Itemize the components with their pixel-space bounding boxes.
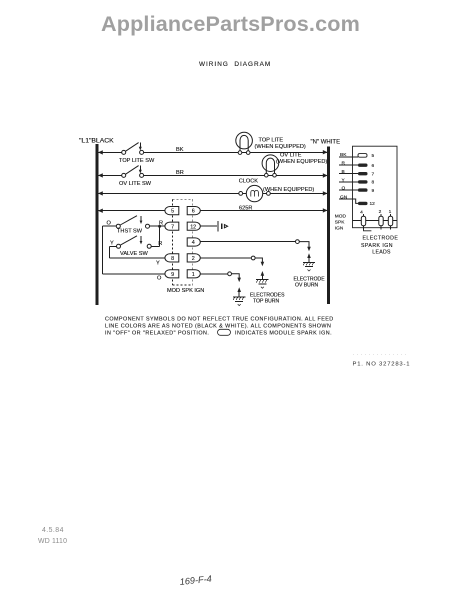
svg-text:IN "OFF" OR "RELAXED" POSITION: IN "OFF" OR "RELAXED" POSITION. (105, 331, 209, 337)
svg-text:9: 9 (372, 188, 375, 194)
svg-text:INDICATES MODULE SPARK IGN.: INDICATES MODULE SPARK IGN. (235, 331, 332, 337)
svg-text:O: O (107, 220, 112, 226)
svg-text:CLOCK: CLOCK (239, 179, 259, 185)
svg-text:8: 8 (372, 180, 375, 186)
svg-text:1: 1 (389, 209, 392, 215)
svg-text:"L1"BLACK: "L1"BLACK (79, 137, 114, 144)
svg-text:1: 1 (192, 272, 195, 278)
svg-text:OV LITE SW: OV LITE SW (119, 181, 152, 187)
svg-text:2: 2 (192, 256, 195, 262)
svg-text:4: 4 (192, 240, 195, 246)
svg-text:(WHEN EQUIPPED): (WHEN EQUIPPED) (276, 159, 327, 165)
svg-text:169-F-4: 169-F-4 (179, 574, 212, 587)
svg-text:Y: Y (156, 260, 160, 266)
svg-text:5: 5 (372, 153, 375, 159)
svg-text:MOD SPK IGN: MOD SPK IGN (167, 288, 204, 294)
svg-text:O: O (157, 275, 162, 281)
svg-text:12: 12 (190, 224, 196, 230)
svg-text:4.5.84: 4.5.84 (42, 527, 64, 534)
svg-text:ELECTRODES: ELECTRODES (250, 292, 285, 298)
svg-text:TOP BURN: TOP BURN (253, 299, 279, 305)
svg-text:8: 8 (171, 256, 174, 262)
svg-text:R: R (159, 221, 163, 227)
svg-text:SPK: SPK (335, 220, 345, 226)
svg-text:"N" WHITE: "N" WHITE (311, 140, 341, 146)
svg-text:WD 1110: WD 1110 (38, 538, 67, 545)
svg-text:2: 2 (379, 209, 382, 215)
svg-text:IGN: IGN (335, 226, 344, 232)
svg-text:BK: BK (176, 147, 184, 153)
svg-text:6: 6 (192, 209, 195, 215)
svg-text:SPARK IGN: SPARK IGN (361, 243, 393, 249)
svg-text:WIRING DIAGRAM: WIRING DIAGRAM (199, 61, 271, 68)
svg-text:MOD: MOD (335, 214, 347, 220)
svg-text:Y: Y (342, 177, 346, 183)
svg-text:6: 6 (372, 163, 375, 169)
svg-text:7: 7 (171, 224, 174, 230)
svg-text:ELECTRODE: ELECTRODE (363, 236, 399, 242)
svg-text:LEADS: LEADS (372, 250, 391, 256)
svg-text:GN: GN (340, 194, 348, 200)
svg-text:625R: 625R (239, 205, 252, 211)
svg-text:TOP LITE: TOP LITE (259, 138, 284, 144)
svg-text:R: R (342, 161, 346, 167)
svg-text:R: R (158, 241, 162, 247)
svg-text:TOP LITE SW: TOP LITE SW (119, 158, 155, 164)
svg-text:9: 9 (171, 272, 174, 278)
svg-text:B: B (342, 169, 345, 175)
svg-text:7: 7 (372, 171, 375, 177)
svg-text:COMPONENT SYMBOLS DO NOT REFLE: COMPONENT SYMBOLS DO NOT REFLECT TRUE CO… (105, 317, 334, 323)
svg-text:OV BURN: OV BURN (295, 283, 319, 289)
svg-text:5: 5 (171, 209, 174, 215)
svg-text:12: 12 (370, 201, 376, 207)
svg-text:ELECTRODE: ELECTRODE (294, 276, 326, 282)
svg-text:P1. NO 327283-1: P1. NO 327283-1 (353, 361, 411, 367)
svg-text:THST SW: THST SW (117, 229, 143, 235)
svg-text:VALVE SW: VALVE SW (120, 251, 148, 257)
svg-text:LINE COLORS ARE AS NOTED (BLAC: LINE COLORS ARE AS NOTED (BLACK & WHITE)… (105, 324, 331, 330)
svg-text:OV LITE: OV LITE (280, 153, 302, 159)
svg-text:(WHEN EQUIPPED): (WHEN EQUIPPED) (255, 144, 306, 150)
svg-text:BK: BK (340, 152, 347, 158)
svg-text:Y: Y (110, 241, 114, 247)
svg-text:AppliancePartsPros.com: AppliancePartsPros.com (101, 11, 360, 36)
svg-text:BR: BR (176, 170, 184, 176)
svg-text:O: O (342, 186, 346, 192)
svg-text:4: 4 (360, 210, 363, 216)
svg-text:(WHEN EQUIPPED): (WHEN EQUIPPED) (263, 187, 314, 193)
